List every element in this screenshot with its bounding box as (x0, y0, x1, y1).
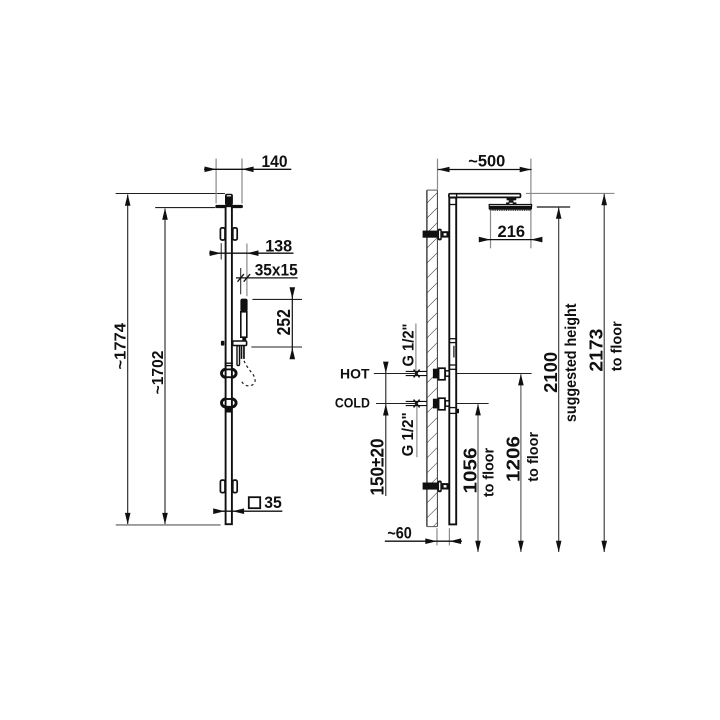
hand shower connector (242, 338, 246, 342)
HOT supply stub (406, 370, 428, 372)
wall bracket bottom: flange (438, 481, 442, 493)
side column (449, 198, 456, 525)
HOT valve box (439, 368, 445, 380)
svg-text:to floor: to floor (525, 432, 542, 482)
COLD nut (433, 399, 438, 409)
COLD leader line (376, 403, 418, 405)
wall bracket bottom: connector (443, 484, 448, 488)
wall bracket top: connector (443, 232, 448, 236)
dim 138 (220, 243, 222, 259)
dim square35 (214, 510, 283, 512)
shower head black face (489, 206, 532, 210)
svg-text:138: 138 (265, 236, 292, 255)
svg-text:to floor: to floor (480, 448, 497, 497)
svg-text:2173: 2173 (587, 329, 607, 372)
svg-text:~60: ~60 (387, 523, 412, 542)
head ball joint (506, 202, 516, 204)
G 1/2 lower label (416, 406, 418, 457)
dim 150+-20 (385, 362, 387, 496)
svg-text:35: 35 (264, 493, 282, 512)
svg-text:~1702: ~1702 (150, 351, 167, 395)
COLD supply stub (406, 400, 428, 402)
hand shower handle (240, 299, 247, 312)
dim 35x15 (240, 268, 242, 294)
side tab below cold (456, 409, 459, 413)
wall bracket top (side): rod (423, 231, 438, 238)
dim 140 (215, 159, 217, 204)
wall bracket top: flange (438, 229, 442, 241)
wall bracket bottom (front) (220, 480, 225, 493)
dim 1056 to floor (477, 404, 479, 552)
ceiling cap (225, 194, 233, 206)
wall bracket top (front) (220, 228, 225, 240)
flange (215, 205, 243, 208)
svg-text:150±20: 150±20 (368, 439, 388, 496)
svg-text:1056: 1056 (461, 448, 481, 494)
hose nut right bars (241, 346, 243, 359)
svg-text:to floor: to floor (608, 321, 625, 371)
hose dashed loop (241, 361, 255, 386)
G half tick hot (414, 370, 420, 378)
svg-text:G 1/2": G 1/2" (400, 412, 417, 456)
svg-text:2100: 2100 (541, 352, 561, 393)
dim 2100 suggested height (558, 207, 560, 552)
column ticks side (449, 338, 456, 340)
dim ~1774 (127, 195, 129, 525)
HOT nut (433, 369, 438, 379)
collar below joint (226, 407, 231, 412)
dim 2173 to floor (603, 194, 605, 552)
COLD tab (445, 401, 449, 406)
svg-text:~1774: ~1774 (113, 323, 130, 369)
G 1/2 upper label (415, 324, 417, 372)
dim ~60 (436, 528, 438, 545)
HOT tab (445, 371, 449, 376)
wall (427, 190, 438, 526)
svg-text:35x15: 35x15 (255, 261, 298, 280)
G half tick cold (414, 400, 420, 408)
hose nut left bar (237, 346, 240, 366)
ext line flange bottom (155, 207, 215, 209)
svg-text:216: 216 (498, 222, 526, 241)
holder bar (233, 341, 247, 346)
svg-text:252: 252 (274, 309, 294, 335)
HOT leader line (374, 373, 418, 375)
COLD valve box (439, 398, 445, 410)
elbow tick (449, 204, 456, 206)
floor line left view (116, 524, 221, 526)
dim 1206 to floor (520, 374, 522, 552)
ball joint cold (front) (221, 399, 226, 407)
dim 216 (490, 211, 492, 249)
nozzle teeth (490, 209, 531, 211)
hand shower body (241, 312, 247, 337)
svg-text:G 1/2": G 1/2" (401, 324, 418, 367)
svg-text:COLD: COLD (335, 394, 370, 410)
svg-text:~500: ~500 (468, 152, 505, 171)
ext line arm level (526, 192, 615, 194)
svg-text:HOT: HOT (340, 365, 370, 381)
wall bracket bottom (side): rod (423, 483, 438, 490)
column tube (226, 206, 232, 524)
column joint ticks (225, 362, 233, 364)
top arm (449, 194, 521, 198)
holder knob left (221, 341, 224, 346)
elbow seam (456, 194, 458, 198)
shower head plate (489, 205, 531, 207)
svg-text:1206: 1206 (504, 436, 524, 482)
dim ~500 (437, 159, 439, 190)
head stem (507, 198, 517, 200)
svg-text:suggested height: suggested height (563, 303, 580, 422)
ball joint hot (front) (221, 369, 226, 377)
dim ~1702 (164, 209, 166, 525)
dim 252 (252, 298, 302, 300)
ext line top of column (116, 193, 225, 195)
svg-text:140: 140 (262, 152, 288, 171)
ext line head level (537, 206, 570, 208)
